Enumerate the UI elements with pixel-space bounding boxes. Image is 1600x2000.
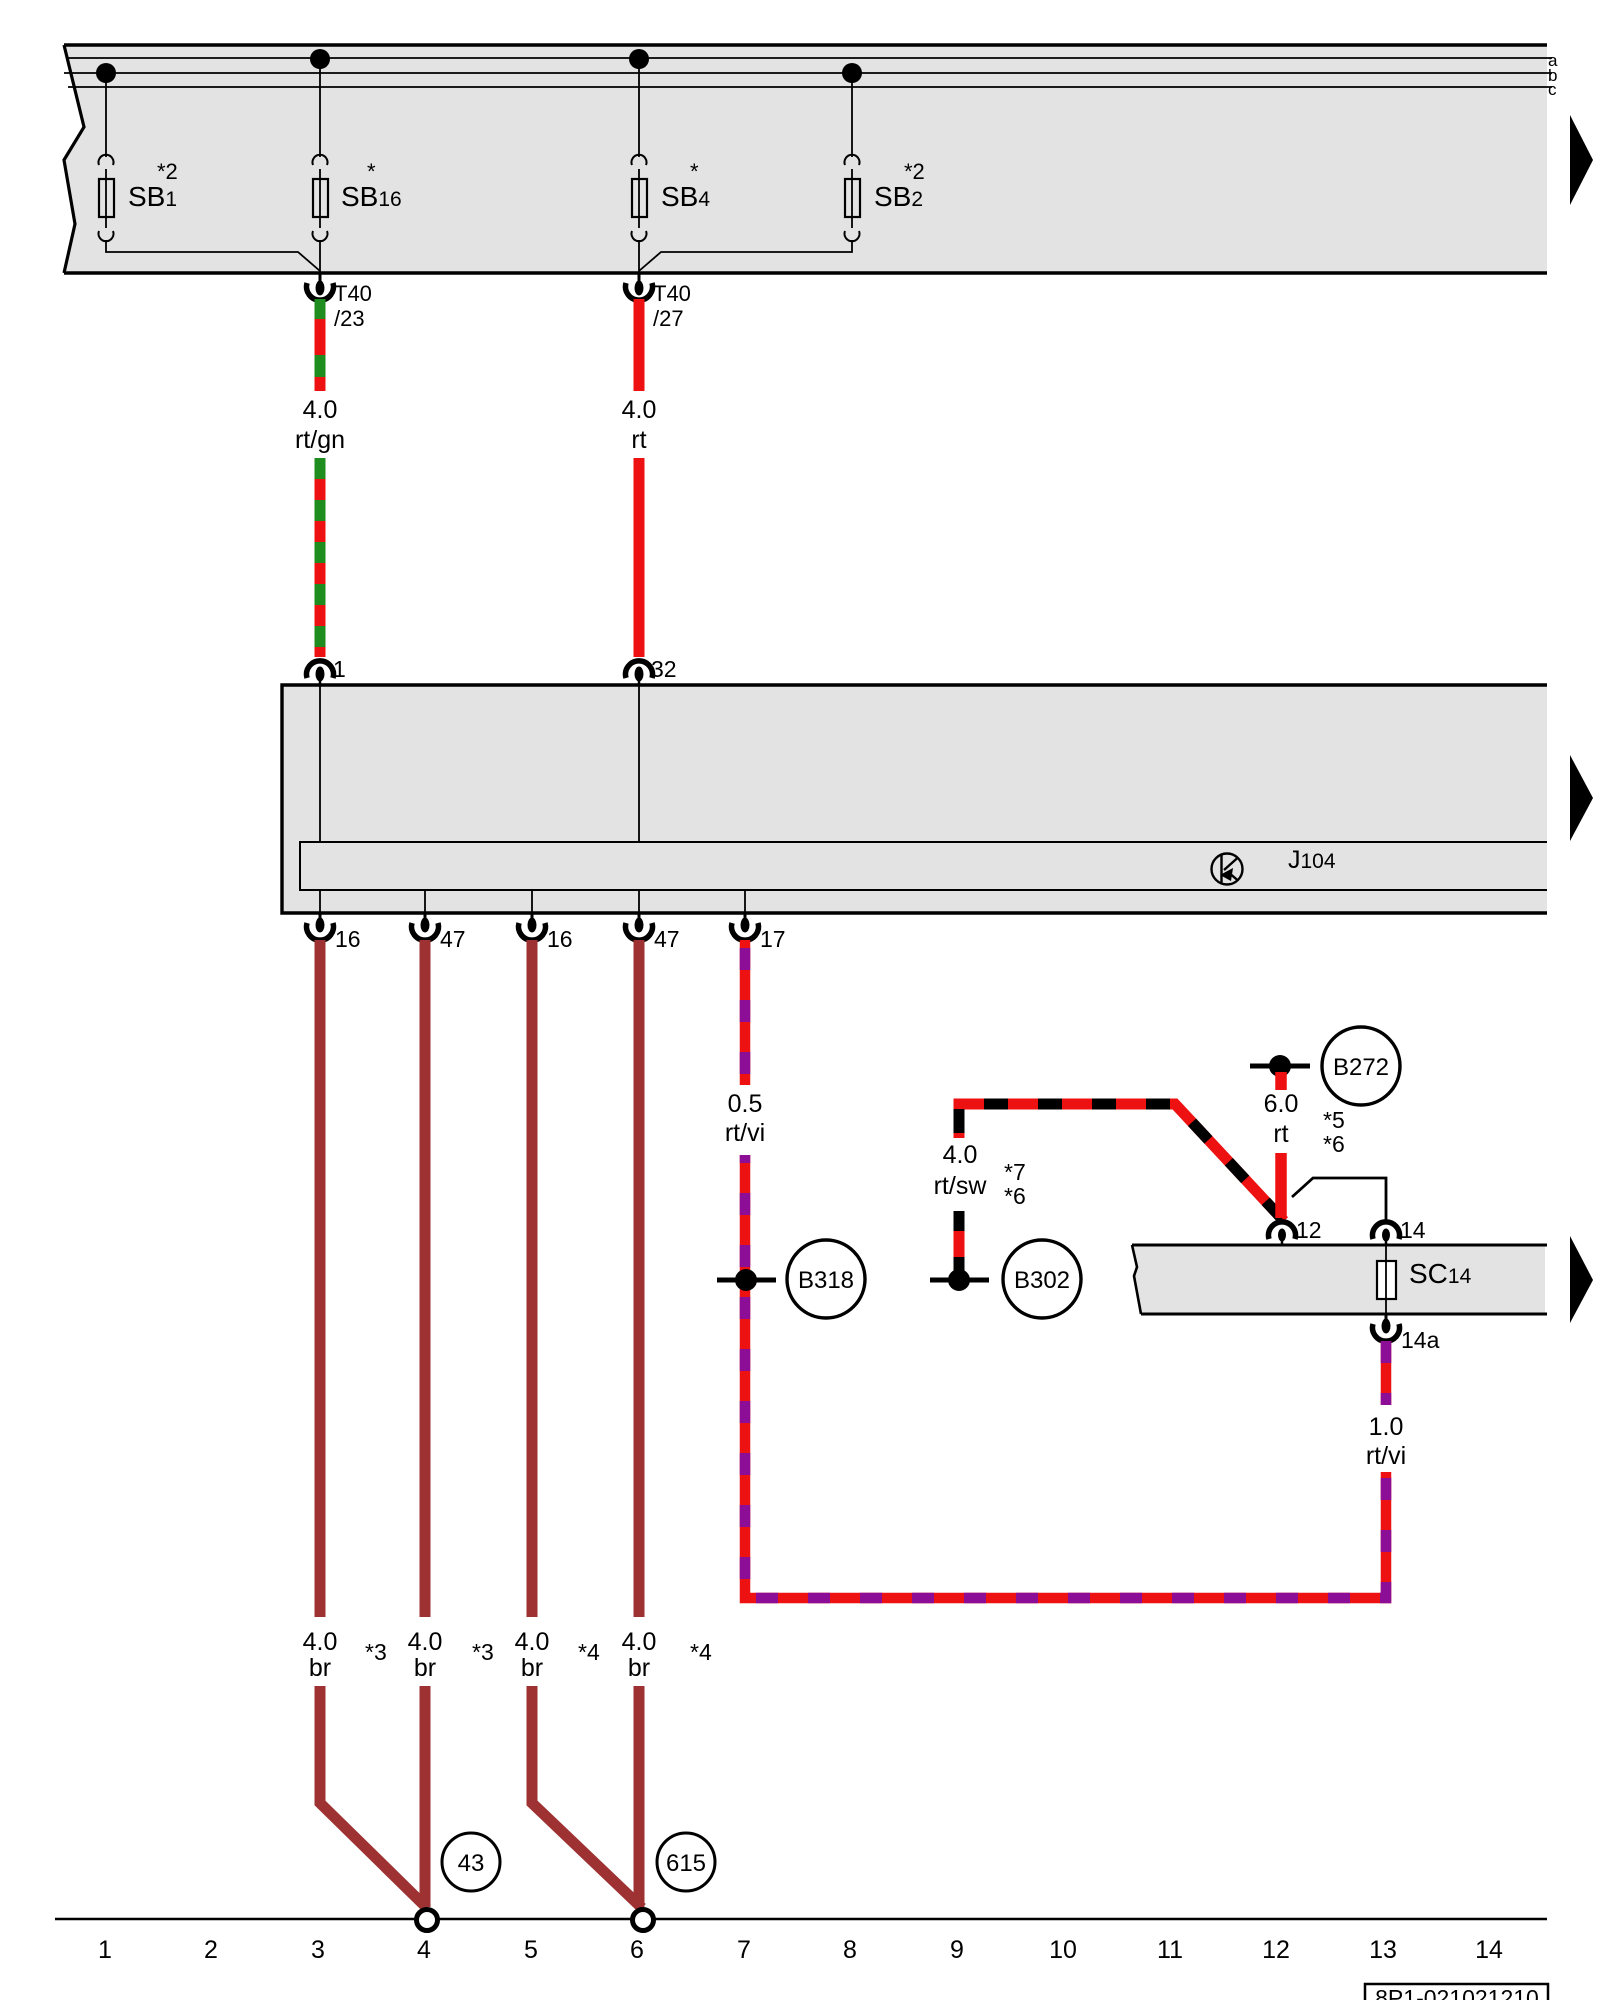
fuse panel band (fuse box)	[64, 45, 1547, 273]
svg-text:2: 2	[204, 1936, 218, 1964]
svg-text:J104: J104	[1288, 846, 1336, 874]
svg-text:*6: *6	[1323, 1131, 1345, 1157]
svg-text:*7: *7	[1004, 1159, 1026, 1185]
fuse SC14	[1377, 1261, 1396, 1299]
junction dot SB16 on rail a	[310, 49, 330, 69]
svg-text:16: 16	[547, 926, 573, 952]
svg-text:*2: *2	[904, 159, 925, 184]
wire 4.0 rt/gn upper segment	[315, 299, 326, 391]
label circle B302	[1003, 1240, 1081, 1318]
direction arrow (fuse panel)	[1570, 115, 1593, 205]
svg-text:*: *	[690, 159, 699, 184]
label circle B272	[1322, 1027, 1400, 1105]
svg-text:47: 47	[440, 926, 466, 952]
svg-text:*5: *5	[1323, 1107, 1345, 1133]
svg-text:*: *	[367, 159, 376, 184]
fuse holder arc bottom SB4	[632, 231, 647, 241]
svg-text:0.5: 0.5	[728, 1090, 763, 1118]
junction node B318	[717, 1278, 776, 1283]
junction node B302	[930, 1278, 989, 1283]
svg-text:4.0: 4.0	[622, 396, 657, 424]
fuse SB16	[313, 179, 328, 217]
fuse strip SC14 band	[1132, 1245, 1545, 1314]
wire stubs inside J104 to bottom pins	[320, 890, 745, 913]
wire SB16 drop	[319, 59, 321, 273]
svg-text:4.0: 4.0	[303, 396, 338, 424]
wire 4.0 rt upper segment	[634, 299, 645, 391]
wire brown pin16b upper	[527, 940, 538, 1617]
junction dot SB2 on rail b	[842, 63, 862, 83]
wire through fuse SC14	[1385, 1245, 1387, 1314]
control unit J104 box	[282, 685, 1547, 913]
svg-text:13: 13	[1369, 1936, 1397, 1964]
wire 4.0 rt/sw lower segment	[954, 1211, 965, 1275]
svg-text:4: 4	[417, 1936, 431, 1964]
ground point 615 node	[633, 1910, 654, 1931]
svg-text:br: br	[414, 1654, 436, 1682]
wire brown pin47b lower to ground 615	[634, 1686, 645, 1907]
svg-text:*3: *3	[365, 1639, 387, 1665]
svg-text:br: br	[628, 1654, 650, 1682]
svg-text:rt/vi: rt/vi	[1366, 1442, 1406, 1470]
svg-text:B272: B272	[1333, 1054, 1389, 1081]
K diagnostic symbol	[1212, 854, 1243, 885]
wire inside J104 from pin 1	[319, 685, 321, 842]
ground label circle 615	[657, 1833, 715, 1891]
connector pin 14a (SC14 bottom)	[1385, 1315, 1388, 1320]
wire brown pin47 lower to ground 43	[420, 1686, 431, 1907]
svg-text:615: 615	[666, 1850, 706, 1877]
svg-text:11: 11	[1157, 1936, 1183, 1964]
svg-text:43: 43	[458, 1850, 485, 1877]
svg-text:T40: T40	[653, 281, 691, 306]
svg-text:rt/sw: rt/sw	[934, 1172, 988, 1200]
wire 0.5 rt/vi lower run to SC14	[745, 1155, 1386, 1598]
junction dot SB4 on rail a	[629, 49, 649, 69]
fuse holder arc top SB16	[313, 155, 328, 165]
wire SB4 drop	[638, 59, 640, 273]
svg-text:c: c	[1548, 80, 1557, 99]
svg-text:*2: *2	[157, 159, 178, 184]
svg-text:4.0: 4.0	[408, 1628, 443, 1656]
svg-text:*4: *4	[578, 1639, 600, 1665]
svg-text:12: 12	[1262, 1936, 1290, 1964]
part number box	[1365, 1984, 1548, 2000]
junction dot SB1 on rail b	[96, 63, 116, 83]
svg-text:6.0: 6.0	[1264, 1090, 1299, 1118]
wire brown pin16b lower to ground 615	[532, 1686, 642, 1908]
connector pin 16 (J104 bottom)	[319, 914, 322, 919]
ground rail line	[55, 1918, 1547, 1921]
wire brown pin16 lower to ground 43	[320, 1686, 427, 1908]
svg-text:/27: /27	[653, 306, 684, 331]
fuse holder arc bottom SB16	[313, 231, 328, 241]
wire SB1 drop	[106, 73, 320, 271]
svg-text:4.0: 4.0	[303, 1628, 338, 1656]
fuse holder arc top SB4	[632, 155, 647, 165]
svg-text:16: 16	[335, 926, 361, 952]
svg-text:4.0: 4.0	[622, 1628, 657, 1656]
svg-text:T40: T40	[334, 281, 372, 306]
svg-text:14a: 14a	[1401, 1327, 1440, 1353]
bus rail c	[68, 86, 1552, 88]
fuse holder arc top SB2	[845, 155, 860, 165]
wire brown pin16 upper	[315, 940, 326, 1617]
svg-text:rt: rt	[631, 426, 646, 454]
svg-text:1: 1	[98, 1936, 112, 1964]
connector T40/27 pin	[638, 274, 641, 282]
connector pin 32 of J104	[625, 661, 652, 678]
control unit J104 inner terminal strip	[300, 842, 1547, 890]
wire 1.0 rt/vi stub below 14a	[1381, 1341, 1392, 1405]
svg-text:rt/gn: rt/gn	[295, 426, 345, 454]
bus rail a	[66, 57, 1552, 59]
connector pin 47b (J104 bottom)	[638, 914, 641, 919]
svg-text:9: 9	[950, 1936, 964, 1964]
svg-text:4.0: 4.0	[943, 1141, 978, 1169]
wire 6.0 rt lower segment to pin 12	[1275, 1153, 1287, 1218]
svg-text:*4: *4	[690, 1639, 712, 1665]
wire link pin 14 to node above pin 12	[1292, 1178, 1386, 1222]
fuse SB4	[632, 179, 647, 217]
wire inside J104 from pin 32	[638, 685, 640, 842]
svg-text:*6: *6	[1004, 1183, 1026, 1209]
svg-text:/23: /23	[334, 306, 365, 331]
direction arrow (SC14)	[1570, 1236, 1593, 1323]
svg-text:7: 7	[737, 1936, 751, 1964]
label circle B318	[787, 1240, 865, 1318]
connector pin 16b (J104 bottom)	[531, 914, 534, 919]
wire 4.0 rt/gn lower segment	[315, 458, 326, 657]
wire 0.5 rt/vi upper segment	[740, 940, 751, 1085]
fuse holder arc bottom SB1	[99, 231, 114, 241]
wire brown pin47 upper	[420, 940, 431, 1617]
svg-text:br: br	[521, 1654, 543, 1682]
svg-text:1.0: 1.0	[1369, 1413, 1404, 1441]
svg-text:rt/vi: rt/vi	[725, 1119, 765, 1147]
svg-text:1: 1	[333, 656, 346, 682]
svg-text:br: br	[309, 1654, 331, 1682]
connector pin 12 (SC14 top)	[1269, 1222, 1296, 1239]
svg-text:17: 17	[760, 926, 786, 952]
fuse SB1	[99, 179, 114, 217]
connector pin 1 of J104	[306, 661, 333, 678]
svg-text:14: 14	[1400, 1217, 1426, 1243]
fuse SB2	[845, 179, 860, 217]
fuse holder arc bottom SB2	[845, 231, 860, 241]
svg-text:32: 32	[651, 656, 677, 682]
svg-text:5: 5	[524, 1936, 538, 1964]
svg-text:8P1-021021210: 8P1-021021210	[1375, 1985, 1539, 2000]
direction arrow (J104)	[1570, 755, 1593, 841]
svg-text:47: 47	[654, 926, 680, 952]
wire brown pin47b upper	[634, 940, 645, 1617]
connector T40/23 pin	[319, 274, 322, 282]
ground point 43 node	[417, 1910, 438, 1931]
connector pin 14 (SC14 top)	[1373, 1222, 1400, 1239]
connector pin 47 (J104 bottom)	[424, 914, 427, 919]
svg-text:6: 6	[630, 1936, 644, 1964]
bus rail b	[64, 72, 1552, 74]
svg-text:rt: rt	[1273, 1120, 1288, 1148]
svg-text:B302: B302	[1014, 1267, 1070, 1294]
ground label circle 43	[442, 1833, 500, 1891]
svg-text:*3: *3	[472, 1639, 494, 1665]
wire 4.0 rt/sw upper run to pin 12	[959, 1104, 1284, 1221]
svg-text:B318: B318	[798, 1267, 854, 1294]
wire 6.0 rt stub below B272	[1275, 1072, 1287, 1090]
fuse holder arc top SB1	[99, 155, 114, 165]
junction node B272	[1250, 1064, 1310, 1069]
svg-text:8: 8	[843, 1936, 857, 1964]
svg-text:10: 10	[1049, 1936, 1077, 1964]
svg-text:12: 12	[1296, 1217, 1322, 1243]
svg-text:14: 14	[1475, 1936, 1503, 1964]
svg-text:4.0: 4.0	[515, 1628, 550, 1656]
svg-text:3: 3	[311, 1936, 325, 1964]
wire 4.0 rt lower segment	[634, 458, 645, 657]
connector pin 17 (J104 bottom)	[744, 914, 747, 919]
wire SB2 drop	[639, 73, 852, 271]
